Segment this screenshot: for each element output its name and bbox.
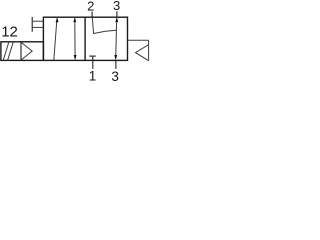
svg-text:3: 3 [113,0,120,13]
svg-text:1: 1 [89,68,97,82]
svg-text:2: 2 [87,0,94,13]
svg-text:12: 12 [1,24,18,41]
svg-text:3: 3 [111,69,119,82]
